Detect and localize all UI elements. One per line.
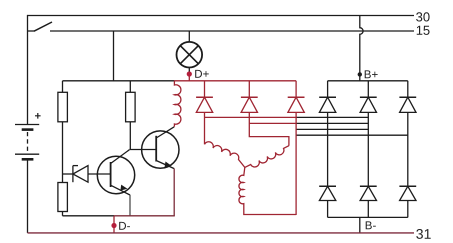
rectifier diode D7 bottom col1: [319, 186, 336, 217]
wire phase line 2 red: [249, 122, 296, 124]
wire left rail from 30 down to battery: [27, 15, 29, 125]
wire phase line 1 red: [205, 116, 297, 118]
wire feed vertical 15 to regulator bus: [113, 31, 115, 81]
stator winding W3 bottom arm: [239, 167, 296, 214]
svg-text:D+: D+: [194, 69, 209, 81]
wire terminal 15 line: [50, 30, 414, 32]
wire phase line 1 black: [296, 116, 368, 118]
resistor R2: [126, 81, 136, 150]
rotor field winding L1: [174, 81, 181, 127]
resistor R3: [58, 174, 68, 216]
wire battery minus to 31 bus: [27, 160, 29, 233]
wire regulator top bus: [63, 80, 175, 82]
wire T1 collector to T2 base: [129, 149, 156, 151]
exciter diode D2: [241, 81, 289, 146]
svg-text:15: 15: [416, 23, 430, 38]
switch S1 ignition: [28, 22, 53, 31]
zener diode ZD1: [63, 166, 111, 183]
wire T2 emitter drop maroon: [173, 169, 175, 216]
wire rectifier bottom bus: [328, 216, 408, 218]
rectifier diode D6 top col3: [399, 81, 416, 187]
wire B+ bus: [328, 80, 408, 82]
resistor R1: [58, 81, 68, 174]
svg-text:D-: D-: [118, 221, 130, 233]
wire phase line 3 black: [296, 128, 368, 130]
node D+ dot: [187, 71, 192, 76]
transistor T1: [97, 150, 134, 195]
wire D- vertical: [113, 216, 115, 233]
wire T1 emitter drop: [129, 195, 131, 216]
svg-text:B+: B+: [364, 69, 379, 81]
rectifier diode D5 top col2: [360, 81, 377, 187]
wire D- line maroon part: [114, 215, 175, 217]
rectifier diode D4 top col1: [319, 81, 336, 187]
battery G1: [15, 113, 41, 159]
exciter diode D1: [196, 81, 213, 145]
wire D- line black part: [63, 215, 115, 217]
wire terminal 30 line: [28, 15, 415, 17]
lamp H1 charge indicator: [177, 31, 203, 74]
wire B- drop: [359, 217, 361, 233]
exciter diode D3: [288, 81, 305, 215]
wire D+ red bus: [174, 80, 296, 82]
transistor T2: [142, 127, 179, 169]
wire phase line 2 black: [296, 122, 368, 124]
rectifier diode D9 bottom col3: [399, 186, 416, 217]
svg-text:31: 31: [416, 226, 432, 242]
rectifier diode D8 bottom col2: [360, 186, 377, 217]
wire terminal 31 bus: [28, 232, 415, 234]
stator winding W2 right arm: [245, 146, 289, 168]
wire B+ feed from 30 with hop over 15: [360, 16, 363, 81]
node B+ dot: [358, 72, 362, 76]
wire phase line 4 black to col3: [296, 134, 408, 136]
stator winding W1 left arm: [205, 142, 245, 168]
node D- dot: [111, 223, 116, 228]
wire lamp to D+ node: [188, 74, 190, 81]
svg-text:B-: B-: [365, 220, 377, 232]
